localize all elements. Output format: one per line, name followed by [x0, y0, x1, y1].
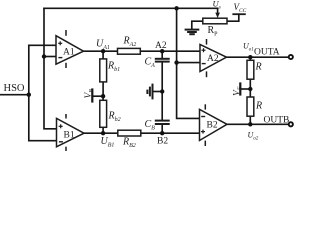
capacitor C_A [155, 59, 170, 62]
svg-text:R: R [255, 101, 262, 112]
wire OUTA node down to R upper [249, 57, 251, 60]
node V_B [101, 94, 105, 98]
op-amp A2 [200, 39, 227, 77]
op-amp B1 [57, 114, 85, 151]
wire A2 inverting input tap [177, 62, 200, 64]
terminal bar V_F [239, 84, 241, 95]
svg-text:A1: A1 [63, 48, 75, 58]
node V_F [248, 87, 252, 91]
svg-text:OUTA: OUTA [254, 48, 280, 58]
wire R lower down to OUTB row [249, 116, 251, 124]
resistor R_B2 (horizontal box) [118, 130, 141, 136]
node U_B1 [101, 131, 105, 135]
node U_A1 [101, 49, 105, 53]
wire A1 output row to R_A2 [84, 50, 118, 52]
wire R_b2 down to U_B1 node [102, 127, 104, 133]
wire HSO rail x=28.8 down to B1 - [29, 45, 57, 140]
svg-text:A2: A2 [207, 54, 219, 64]
resistor R_b1 (vertical box) [100, 59, 107, 82]
wire middle ground stub [153, 91, 162, 93]
wire pot wiper from rail with arrow [217, 8, 219, 13]
wire U_A1 node down to R_b1 [102, 51, 104, 59]
terminal bar V_B [91, 90, 93, 102]
wire R_A2 to A2 + input [140, 50, 200, 52]
ground (middle, rotated left) [147, 84, 152, 100]
wire R_B2 to B2 + input [141, 132, 200, 134]
wire A2 output OUTA row [227, 56, 289, 58]
wire capacitor column C_A to C_B [161, 62, 163, 120]
node A1 inverting tap [42, 54, 46, 58]
wire A1 inverting input tap [44, 56, 56, 58]
wire C_B to B2 node [161, 125, 163, 133]
node top rail tap [174, 6, 178, 10]
wire A1 + input [29, 44, 56, 46]
wire pot left end to ground [192, 21, 203, 29]
node A2 inverting tap [174, 60, 178, 64]
node B2 cap tap [160, 131, 164, 135]
svg-text:B1: B1 [64, 131, 75, 141]
resistor R upper (vertical box) [247, 60, 254, 79]
resistor R lower (vertical box) [247, 97, 254, 116]
wire R upper to V_F node to R lower [249, 79, 251, 97]
node OUTA [248, 55, 252, 59]
resistor R_A2 (horizontal box) [118, 48, 141, 54]
terminal OUTA [289, 55, 293, 59]
ground (top, at potentiometer) [185, 30, 200, 35]
arrow head of pot wiper [215, 13, 220, 18]
node HSO junction [27, 93, 31, 97]
potentiometer R_P body [203, 18, 227, 24]
terminal OUTB [289, 122, 293, 126]
power symbol Vcc [232, 13, 245, 15]
wire top rail (U_s) [44, 7, 218, 9]
wire B2 output OUTB row [227, 123, 289, 125]
svg-text:OUTB: OUTB [264, 116, 290, 126]
wire HSO lead [0, 94, 29, 96]
capacitor C_B [155, 121, 170, 124]
node middle ground tap [160, 89, 164, 93]
op-amp A1 [56, 30, 84, 68]
op-amp B2 [200, 104, 228, 146]
wire V_B test stub [92, 95, 103, 97]
svg-text:A2: A2 [155, 41, 167, 51]
wire V_F test stub [240, 88, 250, 90]
resistor R_b2 (vertical box) [100, 100, 107, 127]
svg-text:B2: B2 [157, 137, 168, 147]
wire B1 output row to R_B2 [84, 132, 118, 134]
svg-text:R: R [255, 62, 262, 73]
wire left setpoint rail x=44 down to B1 + [44, 8, 57, 129]
node A2 cap tap [160, 49, 164, 53]
wire top rail tap down to A2/B2 inverting inputs [177, 8, 200, 118]
svg-text:HSO: HSO [4, 83, 25, 94]
svg-text:B2: B2 [207, 121, 218, 131]
node OUTB [248, 122, 252, 126]
wire A2 node down to capacitor C_A [161, 51, 163, 58]
wire R_b1 to V_B node to R_b2 [102, 82, 104, 100]
wire pot right end to Vcc [227, 14, 239, 21]
